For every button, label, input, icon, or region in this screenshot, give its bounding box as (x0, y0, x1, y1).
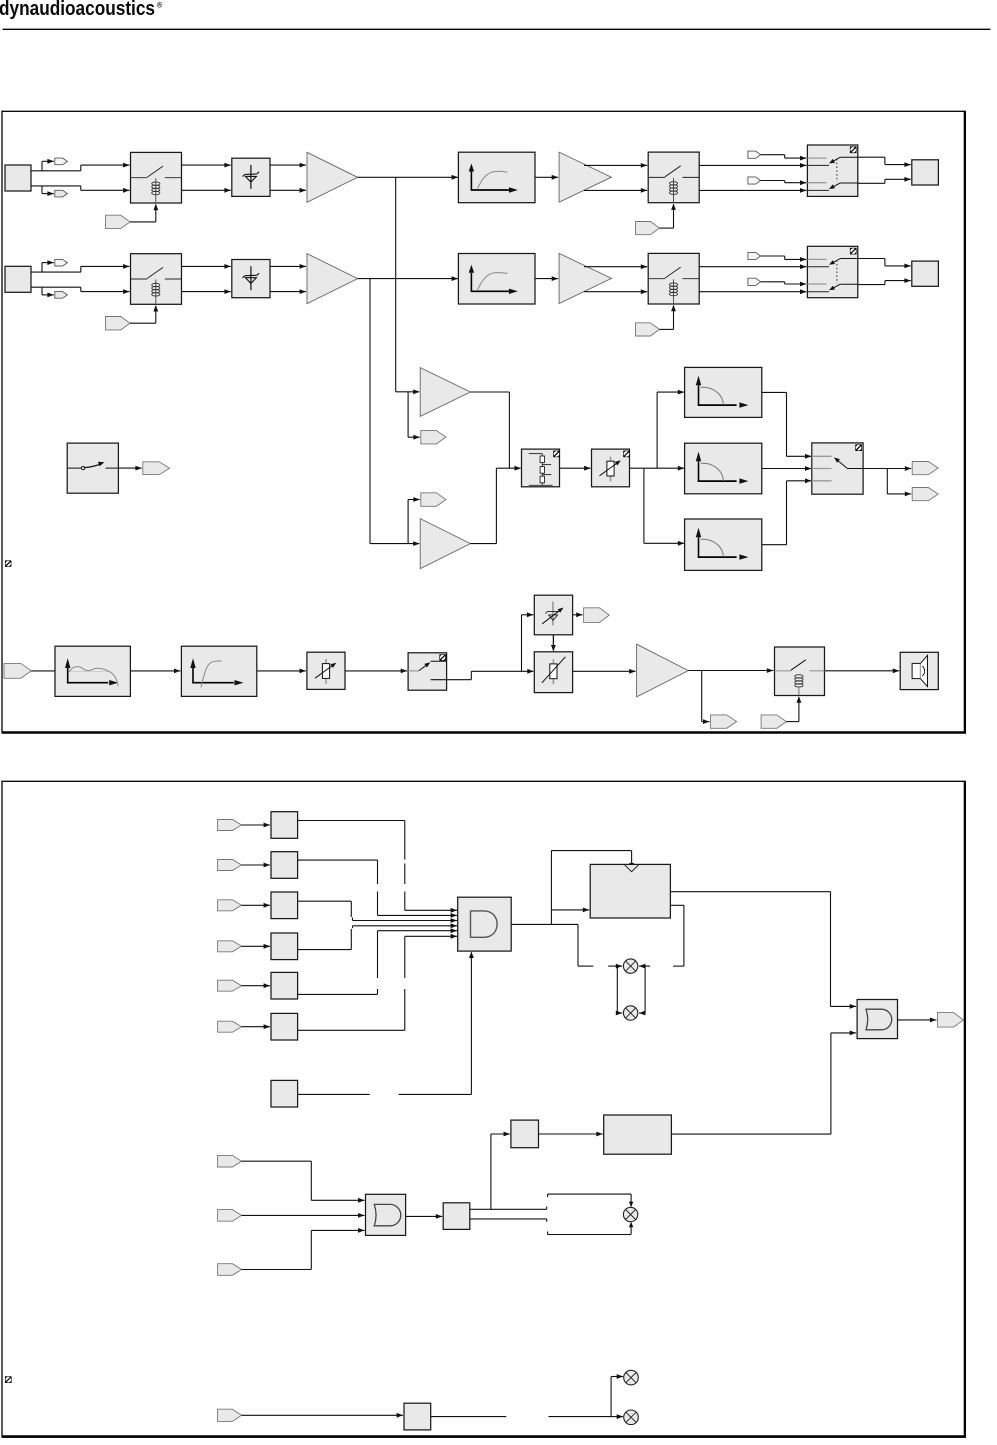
svg-text:dynaudioacoustics: dynaudioacoustics (0, 0, 155, 20)
svg-text:®: ® (157, 2, 163, 10)
